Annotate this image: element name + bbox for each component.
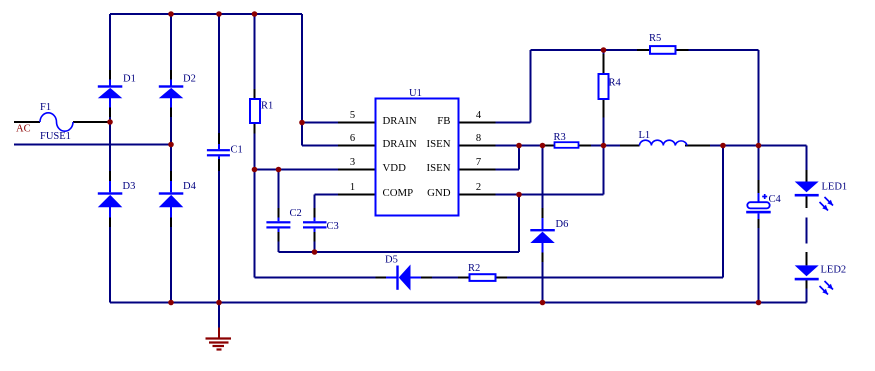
svg-text:LED2: LED2 [821, 265, 847, 276]
svg-text:D3: D3 [123, 181, 136, 192]
svg-text:R4: R4 [609, 78, 622, 89]
svg-text:D2: D2 [183, 74, 196, 85]
svg-text:DRAIN: DRAIN [383, 115, 417, 127]
svg-text:1: 1 [350, 182, 355, 193]
svg-text:3: 3 [350, 157, 355, 168]
svg-text:FUSE1: FUSE1 [40, 131, 71, 142]
svg-text:C4: C4 [769, 194, 782, 205]
svg-text:D6: D6 [556, 219, 569, 230]
svg-text:D4: D4 [183, 181, 197, 192]
svg-text:AC: AC [16, 124, 31, 135]
svg-text:6: 6 [350, 133, 355, 144]
svg-text:DRAIN: DRAIN [383, 138, 417, 150]
svg-text:4: 4 [476, 110, 482, 121]
svg-text:7: 7 [476, 157, 481, 168]
svg-text:LED1: LED1 [822, 182, 848, 193]
svg-text:C2: C2 [290, 208, 302, 219]
svg-text:R2: R2 [468, 263, 480, 274]
svg-text:F1: F1 [40, 102, 51, 113]
svg-text:R1: R1 [261, 101, 273, 112]
svg-text:FB: FB [437, 115, 450, 127]
svg-text:GND: GND [427, 187, 451, 199]
svg-text:C1: C1 [231, 145, 243, 156]
svg-text:C3: C3 [327, 221, 339, 232]
svg-text:VDD: VDD [383, 162, 407, 174]
svg-text:5: 5 [350, 110, 355, 121]
svg-text:8: 8 [476, 133, 481, 144]
svg-text:U1: U1 [409, 88, 422, 99]
svg-text:2: 2 [476, 182, 481, 193]
svg-text:ISEN: ISEN [427, 162, 451, 174]
svg-text:ISEN: ISEN [427, 138, 451, 150]
svg-text:R3: R3 [554, 132, 566, 143]
svg-text:D5: D5 [385, 255, 398, 266]
svg-text:COMP: COMP [383, 187, 414, 199]
svg-text:D1: D1 [123, 74, 136, 85]
svg-text:L1: L1 [639, 130, 651, 141]
svg-text:R5: R5 [649, 33, 661, 44]
